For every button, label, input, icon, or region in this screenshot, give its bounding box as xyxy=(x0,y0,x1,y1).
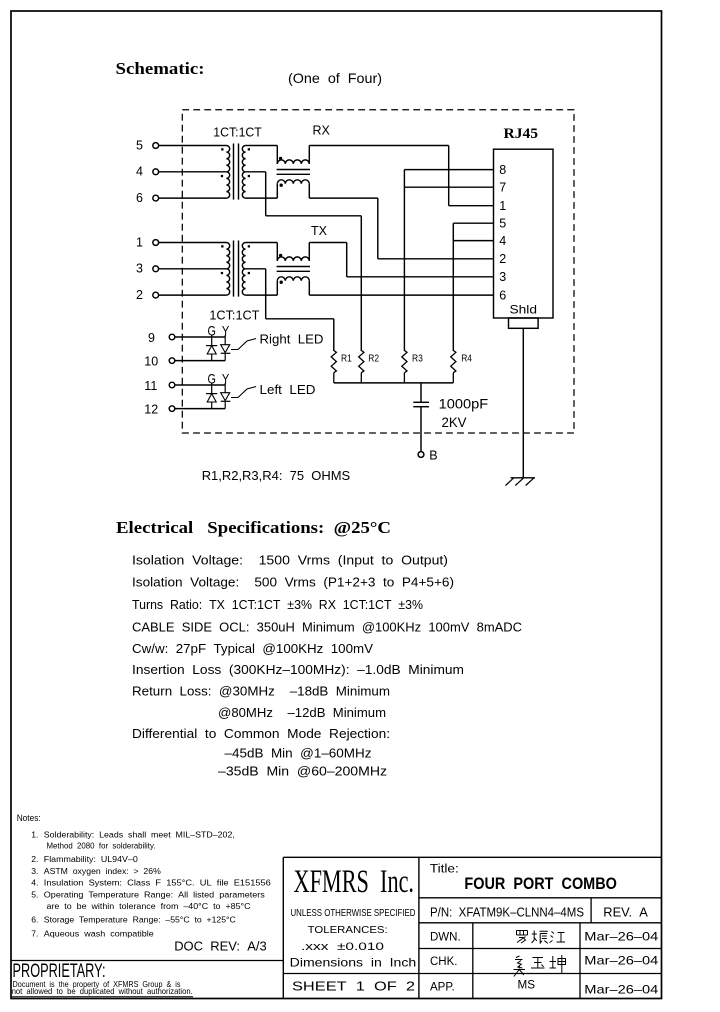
svg-text:not allowed to be duplicat: not allowed to be duplicated without aut… xyxy=(12,986,193,996)
svg-text:Shld: Shld xyxy=(510,302,538,316)
wire pin3 to T2 primary center tap xyxy=(159,268,227,270)
svg-text:ASTM oxygen index: > 26%: ASTM oxygen index: > 26% xyxy=(44,866,161,876)
T2 primary polarity dots xyxy=(221,245,223,247)
svg-text:Insertion Loss (300KHz–100MH: Insertion Loss (300KHz–100MHz): –1.0dB M… xyxy=(132,662,464,677)
wire T1 secondary top to RX choke xyxy=(246,145,278,147)
svg-text:2.: 2. xyxy=(31,854,38,864)
svg-text:Isolation Voltage: 500 Vr: Isolation Voltage: 500 Vrms (P1+2+3 to P… xyxy=(132,575,454,590)
svg-text:7.: 7. xyxy=(31,928,38,938)
wire T1 secondary bottom to RX choke xyxy=(246,197,278,199)
T1 secondary polarity dots xyxy=(248,148,250,150)
svg-text:–35dB Min @60–200MHz: –35dB Min @60–200MHz xyxy=(218,764,387,779)
P/N - REV divider xyxy=(590,898,592,923)
svg-text:R4: R4 xyxy=(461,352,472,364)
P/N row divider xyxy=(419,922,662,924)
wire RJ45 pin 5 to R4 node xyxy=(453,222,493,224)
wire TX+ : choke top to RJ45 pin 3 xyxy=(309,242,346,244)
svg-text:2: 2 xyxy=(499,252,506,266)
RJ45 connector body U1 xyxy=(494,149,554,318)
T2 secondary polarity dots xyxy=(248,245,250,247)
resistor R4 xyxy=(451,350,472,383)
svg-text:1: 1 xyxy=(136,235,143,249)
svg-text:10: 10 xyxy=(144,355,158,369)
svg-text:UNLESS OTHERWISE SPECIFIED: UNLESS OTHERWISE SPECIFIED xyxy=(291,907,416,919)
svg-text:1000pF: 1000pF xyxy=(439,396,489,411)
svg-text:Isolation Voltage: 1500 V: Isolation Voltage: 1500 Vrms (Input to O… xyxy=(132,552,448,567)
terminal B xyxy=(418,452,424,458)
wire pin 12 to Left LED cathodes xyxy=(175,408,225,410)
title row divider xyxy=(419,897,662,899)
svg-text:–45dB Min @1–60MHz: –45dB Min @1–60MHz xyxy=(225,746,372,761)
svg-text:Flammability: UL94V–0: Flammability: UL94V–0 xyxy=(44,854,138,864)
svg-text:are to be within tolerance: are to be within tolerance from –40°C to… xyxy=(47,901,251,911)
svg-text:6: 6 xyxy=(136,191,143,205)
wire pin2 to T2 primary bottom xyxy=(159,294,227,296)
svg-text:Operating Temperature Range:: Operating Temperature Range: All listed … xyxy=(44,889,265,899)
svg-text:Aqueous wash compatible: Aqueous wash compatible xyxy=(44,928,154,938)
wire T1 secondary center tap to R2 xyxy=(246,171,266,173)
svg-text:2KV: 2KV xyxy=(442,415,467,430)
svg-text:FOUR PORT COMBO: FOUR PORT COMBO xyxy=(464,875,617,893)
proprietary underline xyxy=(12,996,193,998)
svg-text:4: 4 xyxy=(499,234,506,248)
svg-text:R1,R2,R3,R4: 75 OHMS: R1,R2,R3,R4: 75 OHMS xyxy=(202,468,351,483)
svg-text:3: 3 xyxy=(136,262,143,276)
transformer T1 primary winding xyxy=(226,146,229,199)
svg-text:Schematic:: Schematic: xyxy=(116,59,205,78)
svg-text:Left LED: Left LED xyxy=(260,382,316,397)
callout leader for Right LED xyxy=(231,339,256,350)
svg-text:RX: RX xyxy=(313,124,331,138)
common-mode choke RX bottom winding xyxy=(276,184,278,198)
svg-text:Storage Temperature Range:: Storage Temperature Range: –55°C to +125… xyxy=(44,915,236,925)
svg-text:Mar–26–04: Mar–26–04 xyxy=(584,982,658,996)
pin 12 terminal xyxy=(169,406,175,412)
svg-text:DWN.: DWN. xyxy=(430,931,461,943)
svg-text:5.: 5. xyxy=(31,889,38,899)
proprietary box top line xyxy=(11,960,283,962)
svg-text:.xxx ±0.010: .xxx ±0.010 xyxy=(301,941,384,953)
svg-text:1CT:1CT: 1CT:1CT xyxy=(213,126,262,140)
resistor R3 xyxy=(402,350,423,383)
svg-text:1: 1 xyxy=(499,199,506,213)
LED green of Right LED xyxy=(206,335,217,361)
wire T2 secondary bottom to TX choke xyxy=(246,294,278,296)
wire pin1 to T2 primary top xyxy=(159,242,227,244)
svg-text:SHEET 1 OF 2: SHEET 1 OF 2 xyxy=(292,979,415,994)
wire termination bus xyxy=(334,382,454,384)
svg-text:3: 3 xyxy=(499,270,506,284)
svg-text:Y: Y xyxy=(222,322,230,338)
svg-text:8: 8 xyxy=(499,163,506,177)
ground symbol xyxy=(506,478,536,486)
wire pin5 to T1 primary top xyxy=(159,145,227,147)
LED yellow of Left LED xyxy=(221,383,231,409)
transformer T2 core xyxy=(233,241,235,297)
svg-text:1.: 1. xyxy=(31,829,38,839)
pin 9 terminal xyxy=(169,334,175,340)
RX choke core xyxy=(277,169,310,171)
svg-text:Mar–26–04: Mar–26–04 xyxy=(584,954,658,968)
wire R3 node vertical xyxy=(403,170,405,351)
wire RX+ : choke top to RJ45 pin 1 xyxy=(309,145,448,147)
svg-text:XFMRS Inc.: XFMRS Inc. xyxy=(294,864,415,900)
svg-text:(One of Four): (One of Four) xyxy=(288,70,382,86)
svg-text:1CT:1CT: 1CT:1CT xyxy=(209,308,259,322)
svg-text:6: 6 xyxy=(499,289,506,303)
approval rows dividers xyxy=(419,923,662,999)
transformer T1 core xyxy=(233,144,235,200)
wire pin 9 to Right LED anodes xyxy=(175,336,225,338)
transformer T2 primary winding xyxy=(226,243,229,296)
svg-text:P/N: XFATM9K–CLNN4–4MS: P/N: XFATM9K–CLNN4–4MS xyxy=(430,906,584,920)
wire T2 secondary center tap to R1 xyxy=(246,268,266,270)
wire T2 secondary top to TX choke xyxy=(246,242,278,244)
svg-text:6.: 6. xyxy=(31,915,38,925)
wire RJ45 pin 4 to R4 node xyxy=(453,240,493,242)
wire shield to ground xyxy=(522,328,524,478)
transformer T2 secondary winding xyxy=(242,243,245,296)
svg-text:Turns Ratio: TX 1CT:1CT ±3: Turns Ratio: TX 1CT:1CT ±3% RX 1CT:1CT ±… xyxy=(132,597,423,612)
svg-text:Mar–26–04: Mar–26–04 xyxy=(584,929,658,943)
svg-text:4.: 4. xyxy=(31,878,38,888)
svg-text:TOLERANCES:: TOLERANCES: xyxy=(308,924,388,936)
svg-text:Solderability: Leads shall: Solderability: Leads shall meet MIL–STD–… xyxy=(44,829,235,839)
svg-text:12: 12 xyxy=(144,403,158,417)
svg-text:REV. A: REV. A xyxy=(603,906,648,920)
common-mode choke TX top winding xyxy=(276,243,278,261)
pin 3 terminal xyxy=(153,266,159,272)
svg-text:Title:: Title: xyxy=(430,863,459,875)
wire RX- : choke bottom to RJ45 pin 2 xyxy=(309,197,378,199)
svg-text:3.: 3. xyxy=(31,866,38,876)
sheet row divider xyxy=(283,973,419,975)
svg-text:Electrical Specifications:: Electrical Specifications: @25°C xyxy=(116,518,391,537)
LED yellow of Right LED xyxy=(221,335,231,361)
pin 1 terminal xyxy=(153,240,159,246)
svg-text:Return Loss: @30MHz –18dB: Return Loss: @30MHz –18dB Minimum xyxy=(132,683,390,698)
svg-text:Dimensions in Inch: Dimensions in Inch xyxy=(290,956,417,970)
pin 11 terminal xyxy=(169,382,175,388)
svg-text:Method 2080 for solderabili: Method 2080 for solderability. xyxy=(47,840,156,850)
common-mode choke RX top winding xyxy=(276,146,278,164)
svg-text:R1: R1 xyxy=(341,352,352,364)
svg-text:R2: R2 xyxy=(368,352,379,364)
svg-text:7: 7 xyxy=(499,181,506,195)
svg-text:CHK.: CHK. xyxy=(430,956,457,968)
wire RJ45 pin 8 to R3 node xyxy=(404,169,493,171)
dashed schematic boundary box xyxy=(182,110,574,433)
wire pin 11 to Left LED anodes xyxy=(175,384,225,386)
pin 6 terminal xyxy=(153,195,159,201)
RX choke top dot xyxy=(279,157,282,160)
svg-text:Notes:: Notes: xyxy=(17,813,41,823)
svg-text:TX: TX xyxy=(311,224,328,238)
common-mode choke TX bottom winding xyxy=(276,281,278,295)
svg-text:2: 2 xyxy=(136,288,143,302)
svg-text:Y: Y xyxy=(222,370,230,386)
svg-text:Right LED: Right LED xyxy=(260,331,324,346)
signature DWN (Chinese) xyxy=(517,931,566,944)
LED green of Left LED xyxy=(206,383,217,409)
TX choke core xyxy=(277,266,310,268)
svg-text:5: 5 xyxy=(136,138,143,152)
svg-text:DOC REV: A/3: DOC REV: A/3 xyxy=(174,939,267,954)
wire TX- : choke bottom to RJ45 pin 6 xyxy=(309,294,493,296)
svg-text:4: 4 xyxy=(136,165,143,179)
signature CHK (Chinese) xyxy=(514,955,566,977)
svg-text:9: 9 xyxy=(148,331,155,345)
title block outline xyxy=(283,857,661,998)
callout leader for Left LED xyxy=(231,387,256,398)
TX choke bottom dot xyxy=(280,281,283,284)
svg-text:Insulation System: Class F: Insulation System: Class F 155°C. UL fil… xyxy=(44,878,271,888)
svg-text:5: 5 xyxy=(499,217,506,231)
wire pin6 to T1 primary bottom xyxy=(159,197,227,199)
wire pin4 to T1 primary center tap xyxy=(159,171,227,173)
svg-text:B: B xyxy=(429,449,437,463)
svg-text:11: 11 xyxy=(144,379,157,393)
svg-text:APP.: APP. xyxy=(430,981,455,993)
wire pin 10 to Right LED cathodes xyxy=(175,360,225,362)
resistor R1 xyxy=(331,350,352,383)
capacitor C1 1000pF xyxy=(413,383,429,452)
TX choke top dot xyxy=(279,254,282,257)
wire R4 node vertical xyxy=(452,223,454,351)
pin 2 terminal xyxy=(153,292,159,298)
svg-text:MS: MS xyxy=(518,980,536,992)
pin 5 terminal xyxy=(153,143,159,149)
svg-text:Differential to Common Mode: Differential to Common Mode Rejection: xyxy=(132,726,390,741)
svg-text:Cw/w: 27pF Typical @100KHz: Cw/w: 27pF Typical @100KHz 100mV xyxy=(132,641,373,656)
pin 4 terminal xyxy=(153,169,159,175)
svg-text:RJ45: RJ45 xyxy=(504,126,539,142)
svg-text:CABLE SIDE OCL: 350uH Mini: CABLE SIDE OCL: 350uH Minimum @100KHz 10… xyxy=(132,619,522,634)
RJ45 shield tab xyxy=(509,318,539,328)
pin 10 terminal xyxy=(169,358,175,364)
svg-text:R3: R3 xyxy=(412,352,423,364)
transformer T1 secondary winding xyxy=(242,146,245,199)
resistor R2 xyxy=(359,350,380,383)
T1 primary polarity dots xyxy=(221,148,223,150)
wire RJ45 pin 7 to R3 node xyxy=(404,186,493,188)
svg-text:@80MHz –12dB Minimum: @80MHz –12dB Minimum xyxy=(218,705,386,720)
RX choke bottom dot xyxy=(280,184,283,187)
